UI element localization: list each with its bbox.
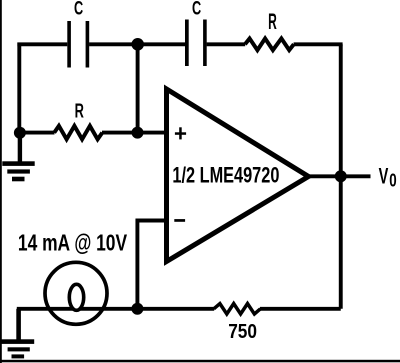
svg-text:R: R [75, 101, 85, 123]
svg-text:1/2 LME49720: 1/2 LME49720 [172, 163, 279, 188]
svg-text:0: 0 [389, 169, 396, 190]
svg-text:C: C [74, 0, 83, 20]
svg-text:750: 750 [228, 321, 257, 343]
svg-text:C: C [192, 0, 201, 20]
svg-text:V: V [379, 163, 389, 188]
svg-text:14 mA @ 10V: 14 mA @ 10V [18, 230, 127, 256]
svg-text:R: R [268, 9, 277, 34]
